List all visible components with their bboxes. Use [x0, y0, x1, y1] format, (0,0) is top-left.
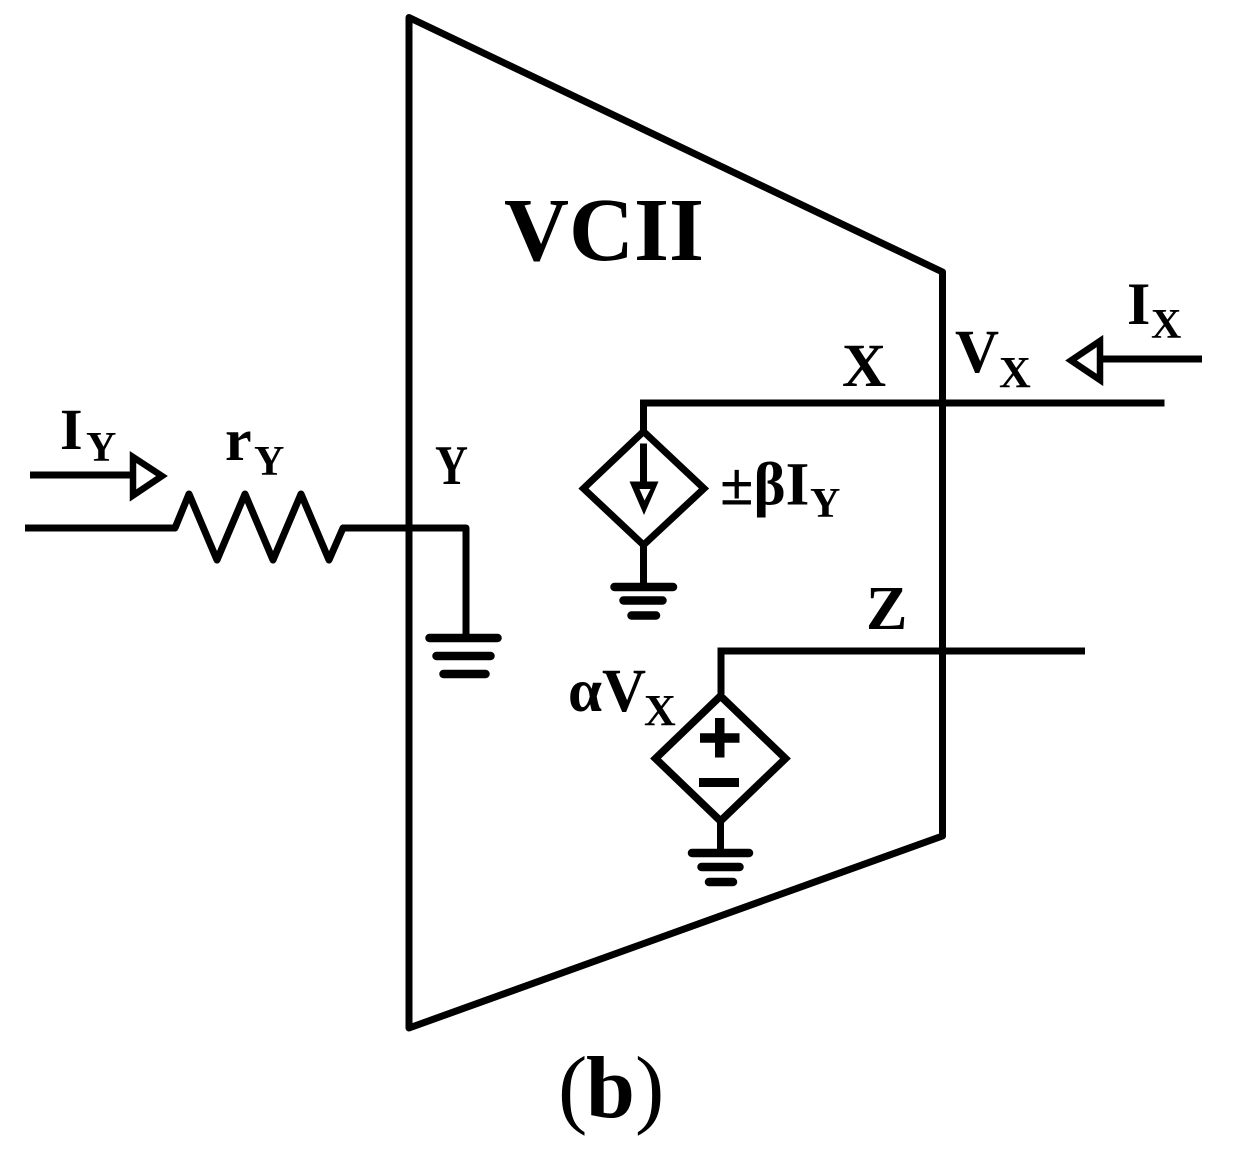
svg-text:±βI: ±βI: [720, 452, 809, 519]
controlled voltage source αV_X (diamond): [656, 696, 786, 821]
svg-text:Y: Y: [810, 481, 840, 527]
ground (node Y): [430, 638, 498, 674]
wire resistor through node Y to ground: [342, 528, 466, 638]
caption (b): [558, 1040, 664, 1137]
current arrow I_Y: [30, 457, 162, 496]
controlled current source ±βI_Y (diamond): [584, 432, 705, 546]
ground (voltage source): [692, 853, 749, 882]
svg-text:VCII: VCII: [504, 181, 704, 280]
label ±βI_Y: [720, 452, 840, 528]
svg-text:I: I: [60, 397, 83, 462]
label I_X: [1127, 271, 1181, 348]
svg-text:r: r: [225, 407, 252, 473]
wire voltage source to ground: [717, 821, 724, 849]
svg-text:(: (: [558, 1040, 587, 1137]
svg-text:I: I: [1127, 271, 1150, 337]
svg-text:X: X: [644, 686, 676, 735]
wire X terminal: [644, 403, 1165, 430]
resistor R1 (r_Y zigzag): [175, 494, 343, 560]
ground (current source): [615, 587, 674, 616]
svg-text:αV: αV: [568, 658, 646, 725]
svg-text:): ): [635, 1040, 664, 1137]
wire current source to ground: [640, 545, 647, 587]
svg-text:X: X: [1151, 302, 1181, 348]
svg-text:Z: Z: [866, 575, 907, 643]
svg-text:V: V: [955, 319, 999, 386]
svg-text:X: X: [999, 348, 1031, 397]
label r_Y (resistor value): [225, 407, 284, 485]
svg-text:b: b: [586, 1040, 635, 1137]
svg-text:Y: Y: [435, 435, 468, 497]
label αV_X: [568, 658, 676, 735]
label V_X (node voltage): [955, 319, 1031, 397]
VCII block U1 (trapezoid body): [409, 18, 943, 1029]
wire input to resistor: [25, 525, 176, 532]
label I_Y: [60, 397, 116, 471]
svg-text:Y: Y: [86, 425, 116, 471]
svg-text:Y: Y: [254, 439, 284, 485]
current arrow I_X: [1071, 341, 1202, 380]
wire Z terminal: [721, 651, 1085, 694]
svg-text:X: X: [842, 333, 886, 400]
